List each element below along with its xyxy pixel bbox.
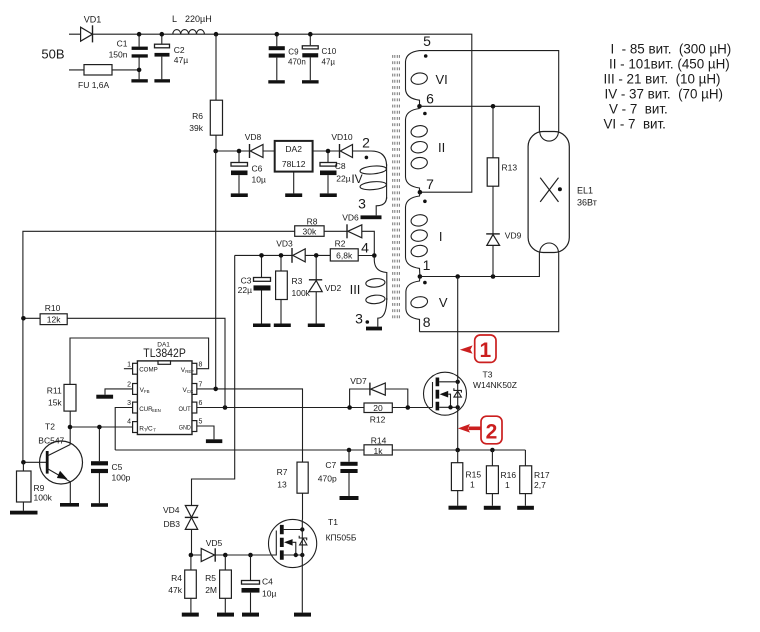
svg-text:VD3: VD3 (276, 239, 293, 249)
resistor R9 (17, 462, 53, 510)
svg-text:C5: C5 (112, 462, 123, 472)
resistor R3 (276, 255, 311, 323)
svg-text:VI: VI (436, 72, 448, 87)
wire DA2 ground stub (293, 172, 295, 194)
capacitor C7 (318, 450, 358, 496)
capacitor C6 (231, 151, 266, 193)
svg-text:470p: 470p (318, 474, 337, 484)
svg-text:R16: R16 (501, 470, 517, 480)
svg-text:47k: 47k (168, 585, 182, 595)
ground R9 (10, 511, 38, 515)
ground T2 emitter (60, 503, 79, 507)
svg-text:78L12: 78L12 (282, 159, 306, 169)
ground DA1 pin 5 (206, 439, 222, 443)
svg-text:6,8k: 6,8k (336, 251, 353, 261)
svg-text:39k: 39k (189, 123, 203, 133)
junction T2 base rail (21, 460, 26, 465)
winding V (406, 277, 448, 332)
junction R5 top (223, 553, 228, 558)
ground DA2 (285, 193, 302, 197)
svg-text:КП505Б: КП505Б (326, 533, 357, 543)
junction Vcc with R6 feed (213, 387, 218, 392)
svg-text:VD7: VD7 (350, 376, 367, 386)
resistor R15 (451, 450, 481, 506)
svg-text:C3: C3 (241, 275, 252, 285)
svg-text:R8: R8 (307, 216, 318, 226)
svg-text:VD10: VD10 (331, 132, 353, 142)
wire winding 1 row to lamp bottom left pin (420, 253, 540, 277)
diode VD5 (201, 538, 222, 562)
ground C1 (131, 79, 147, 82)
resistor R11 (47, 384, 76, 444)
svg-text:T2: T2 (45, 422, 55, 432)
junction R13 top (491, 104, 496, 109)
svg-text:8: 8 (423, 314, 431, 330)
svg-text:20: 20 (373, 403, 383, 413)
svg-text:II: II (438, 140, 445, 155)
winding II (406, 109, 446, 193)
svg-text:100k: 100k (292, 288, 311, 298)
junction T3 source on R14 row (455, 448, 460, 453)
resistor R4 (168, 555, 196, 613)
resistor R8 (295, 216, 324, 236)
diode VD10 (331, 132, 353, 158)
svg-text:10µ: 10µ (252, 175, 266, 185)
resistor R2 (330, 239, 358, 262)
svg-text:R17: R17 (534, 470, 550, 480)
svg-text:2: 2 (127, 382, 131, 389)
ground T1 source (294, 613, 311, 617)
marker arrow 2 (458, 416, 502, 444)
svg-text:V - 7 вит.: V - 7 вит. (609, 102, 668, 117)
junction C6 top (237, 149, 242, 154)
svg-text:R15: R15 (466, 470, 482, 480)
svg-text:5: 5 (199, 419, 203, 426)
svg-text:TL3842P: TL3842P (143, 346, 186, 360)
resistor R10 (23, 303, 225, 408)
ground VD2 (308, 324, 325, 328)
junction VD2 top (314, 253, 319, 258)
diode VD1 (81, 15, 102, 43)
svg-text:47µ: 47µ (174, 55, 188, 65)
svg-text:15k: 15k (48, 398, 62, 408)
junction Rt/Ct row at R11 (68, 425, 73, 430)
svg-text:7: 7 (426, 176, 434, 192)
junction C8 top (326, 149, 331, 154)
svg-text:1: 1 (423, 257, 431, 273)
controller DA1 TL3842P outer box and Vref wire (70, 338, 209, 384)
svg-text:8: 8 (199, 362, 203, 369)
svg-text:220µН: 220µН (185, 14, 212, 24)
svg-text:R3: R3 (292, 276, 303, 286)
junction C10 top (308, 32, 313, 37)
svg-text:R13: R13 (502, 163, 518, 173)
wire fuse row (69, 69, 139, 71)
svg-text:T1: T1 (328, 517, 338, 527)
svg-text:VD9: VD9 (505, 230, 522, 240)
ground R15 (449, 506, 467, 510)
wire winding 6 row to lamp top left pin (420, 106, 540, 131)
svg-text:GND: GND (179, 424, 191, 431)
wire R8 to VD6 (324, 230, 347, 232)
svg-text:5: 5 (423, 33, 431, 49)
node terminal 1 (418, 257, 431, 279)
svg-text:I - 85 вит. (300 µН): I - 85 вит. (300 µН) (611, 42, 732, 57)
svg-text:13: 13 (277, 480, 287, 490)
svg-text:7: 7 (199, 382, 203, 389)
ground winding III (366, 327, 382, 331)
diode VD9 (486, 230, 521, 276)
wire DA2 output to winding IV terminal 2 (313, 151, 387, 166)
ground pin 2 (96, 395, 113, 399)
svg-text:50В: 50В (41, 47, 64, 62)
wire VD3 row (235, 254, 375, 256)
svg-text:2M: 2M (205, 585, 217, 595)
svg-text:1: 1 (505, 480, 510, 490)
inductor L 220uH (172, 14, 212, 34)
wire R6 junction down to Vcc (215, 151, 217, 389)
junction C1 fuse row (137, 68, 142, 73)
capacitor C8 (320, 151, 351, 193)
svg-text:R6: R6 (192, 111, 203, 121)
diode VD7 bypass branch (350, 376, 408, 408)
junction C9 top (275, 32, 280, 37)
resistor R12 (364, 403, 392, 425)
wire T3 drain rail from node 1 row to R14 row (457, 277, 459, 451)
svg-text:R7: R7 (277, 467, 288, 477)
svg-text:VD4: VD4 (163, 505, 180, 515)
junction T3 drain rail on 1 row (455, 274, 460, 279)
resistor R7 (277, 462, 309, 519)
capacitor C3 (238, 255, 271, 323)
svg-text:R14: R14 (371, 435, 387, 445)
svg-text:100p: 100p (112, 473, 131, 483)
junction diac R4 (189, 553, 194, 558)
svg-text:6: 6 (199, 400, 203, 407)
svg-text:22µ: 22µ (238, 285, 252, 295)
junction OUT with R10 (223, 405, 228, 410)
svg-text:VD6: VD6 (342, 212, 359, 222)
pin 4 stub Rt/Ct row (70, 419, 156, 433)
ground C5 (91, 503, 108, 507)
junction after L (214, 32, 219, 37)
junction R10 on left rail (21, 316, 26, 321)
junction C7 on R14 row (347, 448, 352, 453)
junction C5 top (97, 425, 102, 430)
svg-text:C1: C1 (117, 39, 128, 49)
svg-text:36Вт: 36Вт (577, 198, 597, 208)
junction C2 top (160, 32, 165, 37)
winding VI (406, 51, 448, 107)
svg-text:EL1: EL1 (577, 186, 593, 196)
ground C10 (302, 80, 319, 83)
ground C7 (340, 496, 359, 500)
svg-text:150n: 150n (109, 50, 128, 60)
lamp EL1 (528, 132, 597, 253)
wire VD8 row (216, 150, 275, 152)
transistor T2 BC547 (23, 422, 82, 504)
zener VD2 (309, 255, 342, 323)
svg-text:1k: 1k (374, 446, 384, 456)
svg-text:COMP: COMP (139, 367, 158, 374)
wire from top rail down to R6 (215, 34, 217, 100)
marker arrow 1 (460, 335, 496, 362)
wire winding 8 row to lamp bottom right pin (420, 253, 559, 332)
ground C8 (320, 193, 337, 197)
svg-text:100k: 100k (34, 493, 53, 503)
node terminal 3 of winding III (355, 311, 369, 327)
svg-text:VD8: VD8 (245, 132, 262, 142)
svg-text:REF: REF (185, 369, 194, 374)
svg-text:VD1: VD1 (84, 15, 102, 25)
svg-text:W14NK50Z: W14NK50Z (473, 380, 517, 390)
svg-text:V: V (439, 295, 448, 310)
wire top rail from input through to transformer frame corner and terminal 7 row (69, 34, 472, 192)
pin 2 stub Vfb with ground (105, 382, 150, 395)
junction VD9 on 1 row (491, 274, 496, 279)
node terminal 6 (417, 91, 434, 109)
svg-text:VI - 7 вит.: VI - 7 вит. (604, 117, 666, 132)
svg-text:IV - 37 вит. (70 µН): IV - 37 вит. (70 µН) (605, 87, 724, 102)
svg-text:T3: T3 (483, 370, 493, 380)
ground R16 (484, 506, 501, 510)
wire R8 row with left rail corner (23, 231, 295, 462)
controller DA1 body (137, 361, 192, 435)
diac VD4 DB3 (163, 505, 198, 555)
svg-text:12k: 12k (47, 314, 61, 324)
svg-text:R9: R9 (34, 483, 45, 493)
wire VD5 row to T1 gate (191, 531, 276, 556)
svg-text:I: I (439, 229, 443, 244)
pin 6 stub OUT wire to T3 gate (179, 400, 433, 413)
node terminal 4 (361, 240, 376, 258)
svg-text:C9: C9 (288, 48, 299, 57)
junction VD7 right (406, 405, 411, 410)
svg-text:4: 4 (361, 240, 369, 256)
ground R3 (274, 324, 291, 328)
pin 5 stub GND (179, 419, 214, 440)
fuse FU 1,6A (78, 65, 112, 90)
junction R3 top (279, 253, 284, 258)
resistor R14 (364, 435, 392, 456)
resistor R16 (486, 450, 516, 506)
svg-text:1: 1 (480, 339, 492, 362)
svg-text:4: 4 (127, 419, 131, 426)
svg-text:30k: 30k (303, 227, 317, 237)
ground C9 (268, 80, 285, 83)
svg-text:CC: CC (187, 389, 193, 394)
svg-text:22µ: 22µ (336, 174, 350, 184)
pin 8 stub Vref (181, 362, 203, 375)
svg-text:C4: C4 (262, 577, 273, 587)
mosfet T1 KP505B (269, 517, 357, 613)
pin 1 stub COMP (124, 362, 158, 375)
junction R16 on R14 row (490, 448, 495, 453)
wire R6 to VD8 row (215, 135, 217, 151)
capacitor C5 (91, 427, 131, 503)
svg-text:6: 6 (426, 91, 434, 107)
svg-text:1: 1 (127, 362, 131, 369)
pin 7 stub Vcc wire to R7 corner (183, 382, 303, 463)
svg-text:OUT: OUT (179, 406, 191, 413)
node terminal 7 (418, 176, 435, 195)
svg-text:DA2: DA2 (285, 144, 302, 154)
svg-text:C7: C7 (325, 460, 336, 470)
svg-text:III: III (350, 282, 361, 297)
svg-text:SEN: SEN (152, 408, 161, 413)
junction C4 top (248, 553, 253, 558)
svg-text:II - 101вит. (450 µН): II - 101вит. (450 µН) (609, 57, 730, 72)
svg-text:BC547: BC547 (38, 436, 64, 446)
svg-text:2: 2 (486, 420, 498, 443)
diode VD8 (245, 132, 263, 158)
svg-text:DB3: DB3 (164, 519, 181, 529)
svg-text:C10: C10 (322, 47, 337, 56)
capacitor C10 (302, 34, 336, 80)
svg-text:C8: C8 (335, 161, 346, 171)
pin 3 stub CUR sense wire to R14 row (115, 400, 161, 450)
winding I (406, 192, 443, 276)
mosfet T3 W14NK50Z (424, 370, 517, 416)
svg-text:IV: IV (351, 172, 362, 186)
resistor R6 (189, 100, 222, 135)
wire R14 row (115, 449, 525, 451)
svg-text:FU 1,6А: FU 1,6А (78, 80, 110, 90)
ground C4 (242, 613, 259, 617)
wire winding 5 row to lamp top right pin (420, 51, 559, 132)
svg-text:47µ: 47µ (322, 58, 336, 67)
svg-text:3: 3 (358, 196, 366, 212)
ground R4 (182, 613, 199, 617)
resistor R5 (205, 555, 231, 613)
junction VD7 left (347, 405, 352, 410)
svg-text:VD2: VD2 (325, 283, 342, 293)
svg-text:3: 3 (127, 400, 131, 407)
ground C2 (154, 79, 170, 82)
capacitor C1 (109, 34, 148, 79)
winding IV (351, 164, 386, 215)
capacitor C2 (155, 34, 189, 79)
regulator DA2 78L12 (275, 141, 313, 172)
capacitor C4 (242, 555, 277, 613)
svg-text:470n: 470n (288, 58, 306, 67)
ground winding IV (361, 215, 382, 219)
svg-text:R4: R4 (171, 573, 182, 583)
svg-text:L: L (172, 14, 177, 24)
svg-text:R11: R11 (47, 386, 62, 396)
svg-text:3: 3 (355, 311, 363, 327)
transformer core (393, 55, 400, 319)
resistor R17 (520, 450, 550, 506)
wire VD6 to terminal 4 (362, 231, 375, 255)
svg-text:2: 2 (362, 135, 370, 151)
resistor R13 (487, 106, 517, 234)
svg-text:T: T (153, 428, 156, 433)
svg-text:R10: R10 (45, 303, 61, 313)
capacitor C9 (269, 34, 306, 80)
svg-text:2,7: 2,7 (534, 480, 546, 490)
wire VD3 row corner down to diac chain (192, 255, 235, 505)
svg-text:1: 1 (470, 480, 475, 490)
ground C3 (253, 324, 271, 328)
svg-text:C2: C2 (174, 45, 185, 55)
svg-text:R12: R12 (370, 415, 386, 425)
svg-text:R5: R5 (205, 573, 216, 583)
svg-text:VD5: VD5 (206, 538, 223, 548)
svg-text:R2: R2 (335, 239, 346, 249)
diode VD6 (342, 212, 362, 238)
ground R17 (517, 506, 534, 510)
winding III (350, 256, 387, 327)
ground C6 (231, 193, 248, 197)
svg-text:10µ: 10µ (262, 589, 276, 599)
svg-text:C6: C6 (252, 164, 263, 174)
junction C1 top (137, 32, 142, 37)
ground R5 (217, 613, 234, 617)
junction C3 top (259, 253, 264, 258)
svg-text:FB: FB (144, 389, 150, 394)
winding turns list (604, 42, 732, 132)
winding IV phase dot (365, 156, 369, 160)
svg-text:/C: /C (146, 425, 153, 432)
junction R6 VD8 row (213, 149, 218, 154)
diode VD3 (276, 239, 305, 263)
svg-text:III - 21 вит. (10 µН): III - 21 вит. (10 µН) (604, 72, 721, 87)
